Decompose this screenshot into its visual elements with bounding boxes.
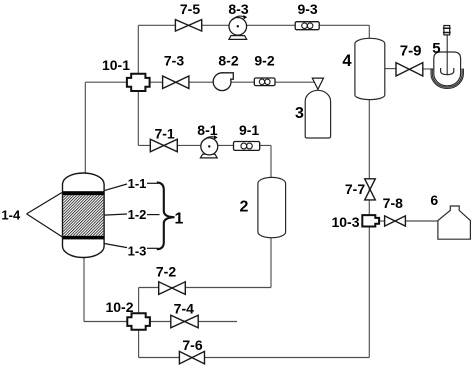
wire vessel 4 side tap to valve 7-9: [385, 68, 396, 70]
flowmeter 9-1: [234, 122, 260, 150]
svg-text:1-3: 1-3: [128, 244, 147, 259]
wire 7-4 branch dead end: [150, 321, 237, 323]
wire 10-1 right arm to funnel of cylinder 3: [150, 81, 314, 83]
wire down to reactor 1 top: [84, 82, 86, 174]
svg-text:7-3: 7-3: [164, 52, 184, 68]
svg-text:10-2: 10-2: [105, 299, 133, 315]
flowmeter 9-2: [254, 53, 275, 86]
leader line for label 1-1: [104, 184, 127, 191]
wire drop into vessel 2 top: [270, 145, 272, 178]
connector label 1-3 to brace: [147, 247, 158, 249]
flowmeter 9-3: [295, 1, 319, 30]
svg-text:7-4: 7-4: [174, 300, 194, 316]
reactor vessel 1 body: [63, 173, 105, 257]
valve 7-5: [175, 1, 201, 31]
svg-text:7-2: 7-2: [156, 263, 176, 279]
pump 8-3: [228, 1, 248, 39]
cross fitting 10-2: [105, 299, 149, 330]
pump 8-1: [197, 122, 218, 158]
svg-text:8-3: 8-3: [228, 1, 248, 17]
svg-text:8-1: 8-1: [197, 122, 217, 138]
svg-text:9-2: 9-2: [254, 53, 274, 69]
reactor 1 top black distributor band: [63, 191, 104, 195]
wire drop into vessel 4 top: [368, 25, 370, 38]
svg-text:10-1: 10-1: [102, 57, 130, 73]
svg-text:9-1: 9-1: [239, 122, 259, 138]
leader line for label 1-2: [104, 214, 127, 215]
valve 7-8: [383, 195, 406, 226]
curly brace grouping 1-1 1-2 1-3: [157, 182, 175, 249]
wire valve 7-8 to vessel 6: [405, 220, 438, 222]
funnel valve on cylinder 3: [312, 78, 323, 91]
tee fitting 10-3: [331, 214, 379, 230]
wire 10-3 tab to valve 7-8: [379, 220, 386, 222]
wire 10-2 left arm: [84, 321, 127, 323]
wire 10-1 down leg: [137, 91, 139, 145]
svg-text:3: 3: [295, 105, 304, 122]
svg-text:7-7: 7-7: [345, 181, 365, 197]
svg-text:1: 1: [175, 210, 184, 227]
svg-text:7-1: 7-1: [154, 126, 174, 142]
connector label 1-1 to brace: [147, 182, 158, 184]
wire riser from 10-1 to top line: [137, 25, 139, 73]
svg-text:6: 6: [430, 192, 438, 208]
svg-text:7-6: 7-6: [182, 337, 202, 353]
vessel 2: [240, 177, 286, 237]
valve 7-7 vertical: [345, 179, 375, 200]
wire 10-2 down leg: [138, 330, 140, 358]
wire third row to vessel 2: [138, 144, 271, 146]
svg-text:1-4: 1-4: [1, 208, 21, 223]
svg-text:7-9: 7-9: [400, 42, 422, 59]
leader lines for label 1-4: [27, 193, 63, 238]
blower 8-2: [213, 53, 239, 91]
svg-text:2: 2: [240, 198, 249, 215]
svg-text:7-8: 7-8: [383, 195, 403, 211]
wire valve 7-9 to vessel 5: [423, 68, 435, 70]
leader line for label 1-3: [104, 244, 127, 248]
connector label 1-2 to brace: [147, 214, 160, 216]
wire 10-1 left arm: [85, 81, 127, 83]
valve 7-9: [396, 42, 423, 76]
valve 7-1: [150, 126, 177, 152]
valve 7-6: [179, 337, 204, 364]
valve 7-2: [156, 263, 185, 294]
svg-text:5: 5: [432, 40, 440, 57]
stirred vessel 5: [431, 26, 463, 89]
reactor 1 hatched catalyst bed section: [63, 195, 103, 236]
cross fitting 10-1: [102, 57, 150, 91]
vessel 4 column: [342, 38, 384, 99]
wire vessel 2 bottom outlet: [270, 237, 272, 288]
wire right column from vessel 4 to bottom line: [368, 99, 370, 358]
svg-text:1-1: 1-1: [128, 176, 147, 191]
svg-text:4: 4: [342, 52, 352, 70]
wire 10-2 up leg: [138, 288, 140, 314]
svg-text:1-2: 1-2: [128, 207, 147, 222]
wire 7-2 branch line: [139, 287, 271, 289]
gas cylinder 3: [295, 90, 331, 138]
valve 7-3: [163, 52, 189, 88]
wire bottom line: [139, 357, 370, 359]
wire reactor 1 bottom outlet: [83, 257, 85, 322]
carboy vessel 6: [430, 192, 470, 239]
reactor 1 bottom black distributor band: [63, 236, 104, 240]
svg-text:10-3: 10-3: [331, 214, 359, 230]
svg-text:8-2: 8-2: [218, 53, 238, 69]
wire top line: [138, 24, 369, 26]
valve 7-4: [171, 300, 198, 327]
svg-text:9-3: 9-3: [297, 1, 317, 17]
svg-text:7-5: 7-5: [180, 1, 200, 17]
